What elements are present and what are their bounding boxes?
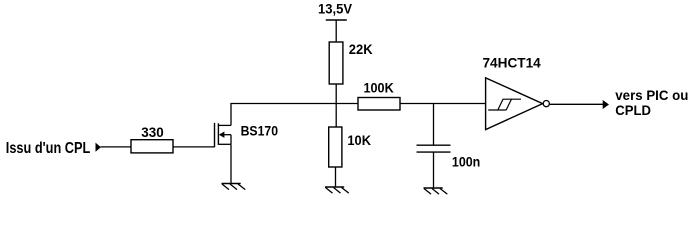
transistor Q1 BS170 (N-MOSFET)	[215, 123, 279, 148]
output arrow	[603, 100, 609, 109]
drain stub	[218, 124, 231, 126]
svg-text:vers PIC ou: vers PIC ou	[615, 87, 688, 103]
svg-text:10K: 10K	[347, 132, 371, 148]
wire: power bar to 22K	[335, 20, 337, 43]
resistor 22K	[329, 42, 372, 84]
input port arrow	[96, 143, 101, 152]
svg-text:74HCT14: 74HCT14	[483, 56, 542, 71]
gate bar	[214, 123, 216, 147]
ground (MOSFET source)	[222, 184, 246, 190]
wire: 10K to ground	[335, 167, 337, 187]
svg-text:BS170: BS170	[241, 123, 279, 139]
hysteresis symbol	[488, 109, 506, 111]
svg-text:CPLD: CPLD	[615, 102, 651, 118]
channel bar	[217, 123, 219, 145]
ground (10K)	[325, 187, 349, 193]
wire: source down to ground	[230, 144, 232, 183]
wire: capacitor to ground	[433, 152, 435, 188]
capacitor C1 100n	[417, 145, 481, 169]
body-source link	[230, 135, 232, 145]
inverter U1 74HCT14 (Schmitt trigger)	[483, 56, 550, 130]
output bubble	[543, 101, 549, 107]
body arrow	[219, 132, 225, 138]
svg-text:100n: 100n	[452, 154, 480, 170]
wire: node down to capacitor	[433, 104, 435, 146]
svg-text:100K: 100K	[364, 80, 394, 95]
source stub	[218, 143, 231, 145]
svg-text:22K: 22K	[349, 42, 373, 57]
wire: input to resistor 330	[101, 146, 132, 148]
wire: resistor 330 to gate	[173, 146, 215, 148]
wire: 22K to node / node to 10K	[335, 84, 337, 128]
svg-text:Issu d'un CPL: Issu d'un CPL	[6, 140, 91, 157]
ground (capacitor)	[424, 188, 448, 194]
node label: vers PIC ou CPLD	[615, 87, 688, 118]
power rail 13,5V	[318, 2, 352, 21]
svg-text:330: 330	[141, 125, 163, 140]
wire: main rail drain to 100K	[230, 103, 358, 105]
wire: 100K to inverter input	[400, 103, 486, 105]
resistor 100K	[358, 80, 400, 110]
wire: inverter output	[550, 103, 604, 105]
svg-text:13,5V: 13,5V	[318, 2, 352, 17]
resistor 10K	[329, 127, 371, 167]
resistor 330	[131, 125, 173, 153]
wire: drain up to rail	[230, 104, 232, 126]
